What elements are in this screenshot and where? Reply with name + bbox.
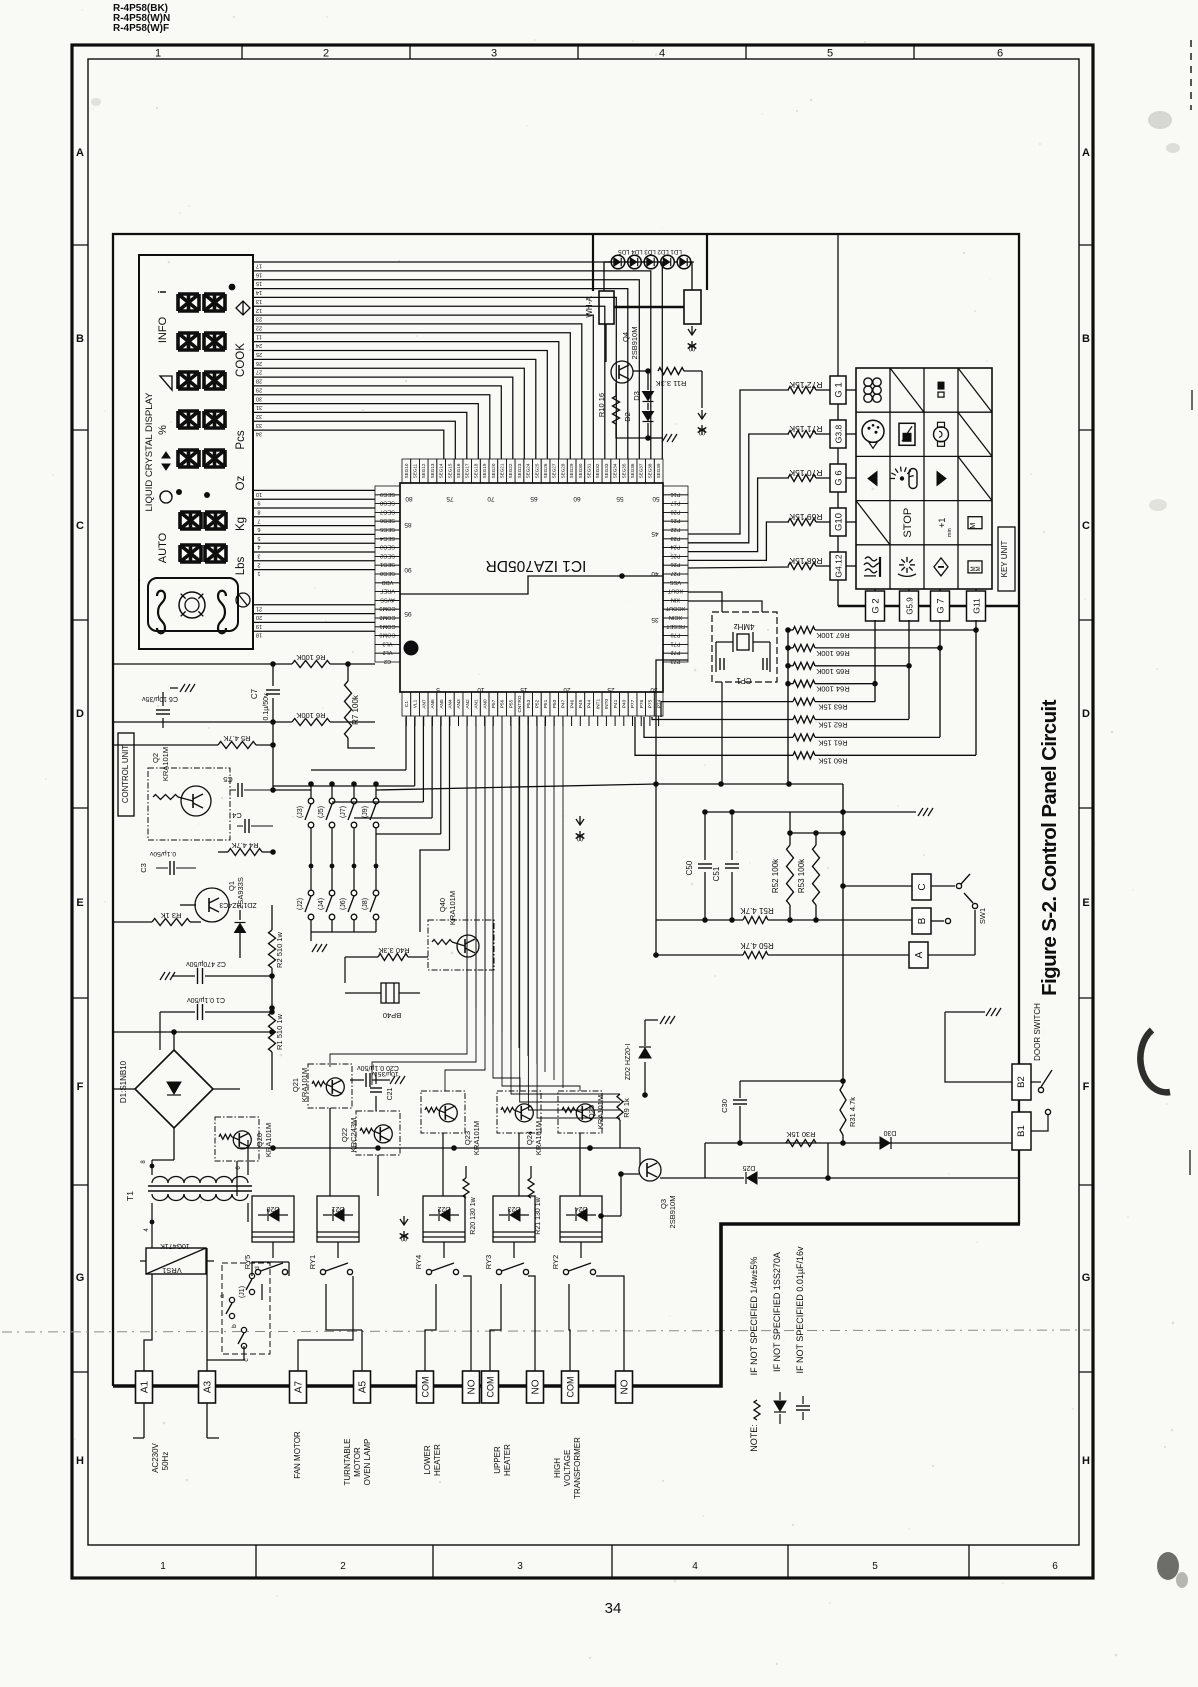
ground C2 xyxy=(160,972,175,980)
key icon power level xyxy=(890,467,917,489)
capacitor C1 0.1u/50v xyxy=(160,996,275,1020)
svg-text:SEG34: SEG34 xyxy=(613,463,618,478)
svg-text:SEG5: SEG5 xyxy=(380,526,395,532)
svg-text:R69 15K: R69 15K xyxy=(789,512,822,522)
ground C20 xyxy=(390,1076,405,1084)
svg-text:INT1: INT1 xyxy=(595,698,601,709)
svg-text:D25: D25 xyxy=(742,1164,755,1171)
door switch contacts xyxy=(1031,1070,1052,1131)
footnote arrow right xyxy=(688,326,697,352)
relay contact RY2 xyxy=(551,1255,596,1275)
svg-text:SEG14: SEG14 xyxy=(439,463,444,478)
svg-text:P27: P27 xyxy=(671,570,681,576)
svg-text:AN2: AN2 xyxy=(465,699,471,709)
svg-text:SEG3: SEG3 xyxy=(380,544,395,550)
svg-text:SEG12: SEG12 xyxy=(421,463,426,478)
svg-text:5: 5 xyxy=(872,1561,878,1572)
svg-text:Q20: Q20 xyxy=(255,1133,264,1147)
resistor R3 1K xyxy=(113,911,201,926)
svg-text:SEG7: SEG7 xyxy=(380,508,395,514)
svg-text:ZD1 HZ4C3: ZD1 HZ4C3 xyxy=(219,901,256,908)
terminal NO a xyxy=(463,1371,480,1403)
svg-text:P71: P71 xyxy=(671,640,681,646)
IC1 top pin row SEG10-SEG39 xyxy=(402,459,663,502)
svg-text:Q21: Q21 xyxy=(291,1078,300,1092)
LCD seg0-9 wires xyxy=(253,490,375,569)
key icon start diamond xyxy=(934,558,948,576)
svg-text:AN0: AN0 xyxy=(482,699,488,709)
svg-text:INFO: INFO xyxy=(157,316,169,343)
svg-text:AVSS: AVSS xyxy=(380,596,395,602)
connector (J9) xyxy=(362,781,379,866)
svg-text:SEG33: SEG33 xyxy=(604,463,609,478)
svg-text:G: G xyxy=(76,1272,85,1284)
svg-text:D24: D24 xyxy=(574,1205,587,1212)
svg-text:4MHz: 4MHz xyxy=(734,622,755,631)
svg-text:D22: D22 xyxy=(437,1205,450,1212)
resistor R2 510 1w xyxy=(269,852,285,1008)
svg-text:P44: P44 xyxy=(587,699,593,708)
svg-text:R63 15K: R63 15K xyxy=(818,703,847,712)
svg-text:P20: P20 xyxy=(671,508,681,514)
svg-text:INT0: INT0 xyxy=(604,698,610,709)
svg-text:G 1: G 1 xyxy=(834,382,845,397)
svg-text:R64 100K: R64 100K xyxy=(816,685,849,694)
svg-text:RY3: RY3 xyxy=(484,1255,493,1269)
fold crease line xyxy=(2,1330,1090,1332)
svg-text:SEG19: SEG19 xyxy=(482,463,487,478)
svg-text:8: 8 xyxy=(257,509,260,515)
svg-text:G3.8: G3.8 xyxy=(834,425,844,444)
resistor R65 xyxy=(785,662,912,676)
svg-text:SEG10: SEG10 xyxy=(404,463,409,478)
LCD segment wire fan xyxy=(253,262,662,459)
svg-text:A: A xyxy=(914,951,925,958)
LCD common wires xyxy=(253,605,375,631)
bridge rectifier D1 S1NB10 xyxy=(113,1029,240,1160)
wire vertical 843 xyxy=(840,784,846,1085)
node G3.8 xyxy=(830,420,846,448)
key icon kitchen timer xyxy=(968,517,982,529)
svg-text:R31 4.7k: R31 4.7k xyxy=(848,1097,857,1127)
resistor R62 xyxy=(652,716,909,730)
connector (J4) xyxy=(318,864,335,932)
svg-text:SEG38: SEG38 xyxy=(647,463,652,478)
resistor R20 130 1w xyxy=(463,1166,477,1235)
svg-text:24: 24 xyxy=(256,342,262,348)
left coordinate letters A-H xyxy=(72,147,88,1467)
key icon defrost menu xyxy=(864,557,880,577)
key matrix blank cells xyxy=(856,368,992,545)
svg-text:70: 70 xyxy=(487,495,495,502)
svg-text:SEG32: SEG32 xyxy=(595,463,600,478)
wire R52 top rail xyxy=(787,830,846,836)
capacitor C50 xyxy=(685,812,712,923)
wire to key matrix xyxy=(816,389,856,391)
svg-text:SEG13: SEG13 xyxy=(430,463,435,478)
resistor R30 15K xyxy=(786,1130,816,1147)
svg-text:R65 100K: R65 100K xyxy=(816,667,849,676)
key matrix column drops xyxy=(875,589,976,591)
svg-text:AN3: AN3 xyxy=(456,699,462,709)
svg-text:TURNTABLE: TURNTABLE xyxy=(343,1439,352,1486)
svg-text:NO: NO xyxy=(620,1379,631,1394)
svg-text:R10 16: R10 16 xyxy=(597,393,606,417)
page number 34 xyxy=(605,1600,622,1617)
svg-text:P76: P76 xyxy=(639,699,645,708)
wire T1 top to bridge xyxy=(152,1090,272,1160)
key icon kettle xyxy=(934,422,949,446)
wire vertical 656 xyxy=(656,660,688,955)
terminal A7 xyxy=(290,1371,307,1403)
connector WH-A right xyxy=(684,290,701,324)
svg-text:%: % xyxy=(157,425,169,435)
svg-text:(J1): (J1) xyxy=(239,1286,246,1298)
svg-text:Q24: Q24 xyxy=(525,1131,534,1145)
wire VRS1 legs xyxy=(144,1234,207,1371)
op IC1 IZA705DR body xyxy=(400,483,663,692)
svg-text:SEG8: SEG8 xyxy=(380,500,395,506)
IC1 bottom pin stubs xyxy=(406,716,658,726)
svg-text:1: 1 xyxy=(155,48,161,60)
key icon memory xyxy=(968,561,982,573)
svg-text:14: 14 xyxy=(256,289,262,295)
svg-text:(J2): (J2) xyxy=(297,898,304,910)
svg-text:40: 40 xyxy=(651,570,659,577)
svg-text:75: 75 xyxy=(446,495,454,502)
crystal CF1 block xyxy=(712,612,777,685)
NOTE block xyxy=(749,1246,810,1452)
svg-text:G: G xyxy=(1082,1272,1091,1284)
resistor R53 100k xyxy=(797,833,820,923)
svg-text:F: F xyxy=(1083,1081,1090,1093)
svg-text:CF1: CF1 xyxy=(736,676,752,685)
svg-text:AUTO: AUTO xyxy=(157,532,169,563)
svg-text:1: 1 xyxy=(160,1561,166,1572)
svg-text:SEG27: SEG27 xyxy=(552,463,557,478)
svg-text:1: 1 xyxy=(257,570,260,576)
svg-text:COM0: COM0 xyxy=(379,632,395,638)
svg-text:XIN: XIN xyxy=(671,596,680,602)
page inner frame xyxy=(88,59,1079,1545)
svg-text:10µ/35 V: 10µ/35 V xyxy=(371,1070,399,1077)
svg-text:XOUT: XOUT xyxy=(667,588,683,594)
diode D23 relay coil RY3 xyxy=(493,1196,535,1242)
svg-text:45: 45 xyxy=(651,530,659,537)
svg-text:20: 20 xyxy=(563,686,571,693)
wire rail R6 bottom xyxy=(113,719,292,725)
svg-text:P16: P16 xyxy=(671,491,681,497)
key bus thick wire xyxy=(838,605,1019,608)
wire P5x to driver tops xyxy=(330,717,580,1091)
resistor R31 4.7k xyxy=(840,1085,857,1143)
LCD decimal dots xyxy=(176,284,235,498)
svg-text:SEG6: SEG6 xyxy=(380,517,395,523)
figure title xyxy=(1038,699,1061,995)
capacitor C51 xyxy=(712,812,739,923)
svg-text:M: M xyxy=(976,566,982,571)
svg-text:a: a xyxy=(219,1294,226,1298)
svg-text:VL3: VL3 xyxy=(383,640,393,646)
resistor R61 xyxy=(644,717,940,747)
svg-text:VL1: VL1 xyxy=(413,699,419,708)
svg-text:AN6: AN6 xyxy=(430,699,436,709)
svg-text:KRC243M: KRC243M xyxy=(349,1118,358,1153)
svg-text:LIQUID CRYSTAL DISPLAY: LIQUID CRYSTAL DISPLAY xyxy=(144,392,155,512)
node C box xyxy=(912,874,931,900)
resistor R7 100k xyxy=(345,664,376,748)
svg-text:RY4: RY4 xyxy=(414,1255,423,1269)
svg-text:5: 5 xyxy=(436,686,440,693)
svg-text:NOTE:: NOTE: xyxy=(749,1424,759,1452)
transistor Q1 2SA933S xyxy=(180,877,245,922)
svg-text:(J8): (J8) xyxy=(362,898,369,910)
HIGH VOLTAGE TRANSFORMER label xyxy=(553,1437,582,1499)
resistor R6 100K upper xyxy=(292,653,375,668)
node G4.12 xyxy=(830,552,846,580)
svg-text:27: 27 xyxy=(256,369,262,375)
svg-text:SEG37: SEG37 xyxy=(639,463,644,478)
capacitor C21 10u/35V xyxy=(370,1070,399,1111)
terminal B2 xyxy=(1012,1064,1031,1100)
ground rail 812 xyxy=(918,808,933,816)
svg-text:AN7: AN7 xyxy=(421,699,427,709)
transistor Q21 KRA101M xyxy=(291,1064,352,1108)
LCD annunciator column xyxy=(157,290,172,563)
connector (J3) xyxy=(297,781,314,866)
svg-text:2: 2 xyxy=(257,561,260,567)
svg-text:C2: C2 xyxy=(384,658,391,664)
svg-text:AN4: AN4 xyxy=(448,699,454,709)
resistor R68 xyxy=(788,556,823,570)
svg-text:LOWER: LOWER xyxy=(423,1445,432,1475)
svg-text:3: 3 xyxy=(491,48,497,60)
svg-text:A3: A3 xyxy=(203,1380,214,1393)
svg-text:34: 34 xyxy=(605,1600,622,1617)
svg-text:P57: P57 xyxy=(491,699,497,708)
svg-text:10: 10 xyxy=(256,491,262,497)
svg-text:(J6): (J6) xyxy=(340,898,347,910)
svg-text:B1: B1 xyxy=(1016,1125,1027,1137)
svg-text:COM2: COM2 xyxy=(379,614,395,620)
svg-text:VSS: VSS xyxy=(670,579,681,585)
svg-text:XCOUT: XCOUT xyxy=(665,605,685,611)
key icon arrow down xyxy=(937,472,946,486)
node B box xyxy=(912,908,931,934)
svg-text:COM3: COM3 xyxy=(379,605,395,611)
svg-text:50: 50 xyxy=(652,495,660,502)
svg-text:SEG22: SEG22 xyxy=(508,463,513,478)
svg-text:KRA101M: KRA101M xyxy=(264,1123,273,1157)
svg-text:2: 2 xyxy=(340,1561,346,1572)
IC1 bottom pin row xyxy=(402,686,663,716)
svg-text:D20: D20 xyxy=(266,1205,279,1212)
wire R11 to footnote xyxy=(701,371,703,408)
relay contact RY4 xyxy=(414,1255,459,1275)
svg-text:P53: P53 xyxy=(526,699,532,708)
footnote arrow star lower xyxy=(698,410,707,436)
capacitor C7 xyxy=(250,664,280,722)
resistor R1 510 1w xyxy=(269,1005,285,1090)
svg-text:R1 510 1w: R1 510 1w xyxy=(275,1013,284,1049)
svg-text:C1: C1 xyxy=(404,701,410,707)
svg-text:P17: P17 xyxy=(671,500,681,506)
wire long vertical to key bus xyxy=(837,234,839,376)
svg-text:G 6: G 6 xyxy=(834,470,845,485)
right coordinate letters A-H xyxy=(1079,147,1093,1467)
ground near D2 xyxy=(648,434,677,442)
svg-text:C: C xyxy=(76,520,84,532)
diode D21 relay coil RY1 xyxy=(317,1196,359,1242)
wire row C xyxy=(843,885,912,887)
model numbers header xyxy=(113,3,170,34)
svg-text:RY5: RY5 xyxy=(243,1255,252,1269)
resistor R52 100k xyxy=(771,812,794,923)
svg-text:SW1: SW1 xyxy=(978,908,987,924)
svg-text:G4.12: G4.12 xyxy=(834,554,844,577)
svg-text:17: 17 xyxy=(256,263,262,269)
diode D30 xyxy=(825,1129,896,1181)
wire left edge drops xyxy=(113,664,160,1386)
svg-text:C20 0.1µ/50v: C20 0.1µ/50v xyxy=(357,1064,399,1071)
svg-text:22: 22 xyxy=(256,324,262,330)
svg-text:NO: NO xyxy=(467,1379,478,1394)
top coordinate band ticks xyxy=(242,45,914,59)
svg-text:SEG36: SEG36 xyxy=(630,463,635,478)
svg-text:G 7: G 7 xyxy=(936,598,947,613)
svg-text:E: E xyxy=(1082,897,1089,909)
svg-text:28: 28 xyxy=(256,378,262,384)
wire top rail to LED block xyxy=(593,235,707,291)
node G1 xyxy=(830,376,846,404)
svg-text:COM: COM xyxy=(486,1377,496,1398)
resistor R21 130 1w xyxy=(528,1166,542,1235)
key icon weight xyxy=(864,378,881,402)
svg-text:MOTOR: MOTOR xyxy=(353,1447,362,1477)
svg-text:C: C xyxy=(917,883,928,890)
svg-text:D23: D23 xyxy=(507,1205,520,1212)
svg-text:F: F xyxy=(77,1081,84,1093)
svg-text:P26: P26 xyxy=(671,561,681,567)
svg-text:A: A xyxy=(1082,147,1090,159)
svg-text:R53 100k: R53 100k xyxy=(797,858,806,893)
svg-text:R7 100k: R7 100k xyxy=(351,694,360,725)
svg-text:35: 35 xyxy=(651,616,659,623)
svg-text:D21: D21 xyxy=(331,1205,344,1212)
terminal COM c xyxy=(562,1371,579,1403)
svg-text:4: 4 xyxy=(692,1561,698,1572)
svg-text:R21 130 1w: R21 130 1w xyxy=(535,1196,542,1234)
resistor R40 3.3K xyxy=(345,943,432,961)
svg-text:SEG2: SEG2 xyxy=(380,552,395,558)
svg-text:85: 85 xyxy=(404,521,412,528)
svg-text:D: D xyxy=(1082,708,1090,720)
svg-text:SEG25: SEG25 xyxy=(534,463,539,478)
capacitor C6 10u/35v xyxy=(142,692,178,728)
svg-text:H: H xyxy=(1082,1455,1090,1467)
svg-text:80: 80 xyxy=(405,495,413,502)
terminal B1 xyxy=(1012,1112,1031,1150)
resistor R6 100K lower xyxy=(292,711,375,726)
svg-text:6: 6 xyxy=(257,526,260,532)
svg-text:R11 3.3K: R11 3.3K xyxy=(656,379,687,388)
svg-text:R4 4.7K: R4 4.7K xyxy=(231,841,258,850)
wire v273 xyxy=(272,722,274,790)
svg-text:95: 95 xyxy=(404,610,412,617)
key icon arrow up xyxy=(868,472,877,486)
svg-text:i: i xyxy=(157,290,169,293)
svg-text:Q4: Q4 xyxy=(621,332,630,342)
svg-text:( ): ( ) xyxy=(576,833,584,842)
svg-text:25: 25 xyxy=(256,351,262,357)
svg-text:IF NOT SPECIFIED 1/4w±5%: IF NOT SPECIFIED 1/4w±5% xyxy=(749,1257,759,1376)
svg-text:P24: P24 xyxy=(671,544,681,550)
IC1 left pin row xyxy=(375,486,412,664)
svg-text:3: 3 xyxy=(517,1561,523,1572)
svg-text:VREF: VREF xyxy=(379,588,395,594)
svg-text:R71 15K: R71 15K xyxy=(789,424,822,434)
node G7 xyxy=(931,591,950,621)
node G10 xyxy=(830,508,846,536)
resistor R72 xyxy=(788,380,823,394)
svg-text:G 2: G 2 xyxy=(871,598,882,613)
IC1 right pin row xyxy=(651,486,688,664)
svg-text:SEG21: SEG21 xyxy=(500,463,505,478)
resistor R5 4.7k xyxy=(113,734,276,749)
wire rail y784 xyxy=(653,781,843,787)
terminal A1 xyxy=(136,1371,153,1403)
svg-text:(J7): (J7) xyxy=(340,806,347,818)
wire connector bottom rail xyxy=(311,932,376,941)
svg-text:Q23: Q23 xyxy=(463,1131,472,1145)
svg-text:UPPER: UPPER xyxy=(493,1446,502,1474)
wire J1 links xyxy=(207,1262,289,1360)
svg-text:HEATER: HEATER xyxy=(503,1444,512,1476)
svg-text:SEG26: SEG26 xyxy=(543,463,548,478)
svg-text:6: 6 xyxy=(997,48,1003,60)
wire rail y812 xyxy=(702,809,916,815)
key unit matrix grid xyxy=(856,368,992,589)
resistor R11 3.3K xyxy=(633,368,702,389)
resistor R67 xyxy=(785,627,979,641)
svg-text:KRA101M: KRA101M xyxy=(596,1095,605,1129)
LCD pin numbers group 1 xyxy=(256,263,262,437)
wire rail R6 top xyxy=(113,661,292,667)
svg-text:A5: A5 xyxy=(358,1380,369,1393)
diode D2 xyxy=(623,403,654,441)
diode D24 relay coil RY2 xyxy=(560,1196,602,1242)
LCD icon box xyxy=(148,578,238,633)
svg-text:Pcs: Pcs xyxy=(235,430,247,449)
transformer T1 xyxy=(125,1160,252,1248)
svg-text:P22: P22 xyxy=(671,526,681,532)
svg-text:E: E xyxy=(76,897,83,909)
svg-text:OVEN LAMP: OVEN LAMP xyxy=(363,1439,372,1486)
svg-text:SEG1: SEG1 xyxy=(380,561,395,567)
schematic border xyxy=(113,234,1019,1386)
svg-text:R70 15K: R70 15K xyxy=(789,468,822,478)
terminal A5 xyxy=(354,1371,371,1403)
resistor R71 xyxy=(788,424,823,438)
svg-text:H: H xyxy=(76,1455,84,1467)
bottom terminal bus wire xyxy=(113,1224,1020,1386)
diode D25 xyxy=(660,1164,1020,1184)
svg-text:C2 470µ/50v: C2 470µ/50v xyxy=(186,960,226,967)
resistor R9 1k xyxy=(617,1094,631,1148)
svg-text:VL2: VL2 xyxy=(383,649,393,655)
capacitor C4 xyxy=(232,811,273,833)
wire G column chain xyxy=(837,404,839,606)
